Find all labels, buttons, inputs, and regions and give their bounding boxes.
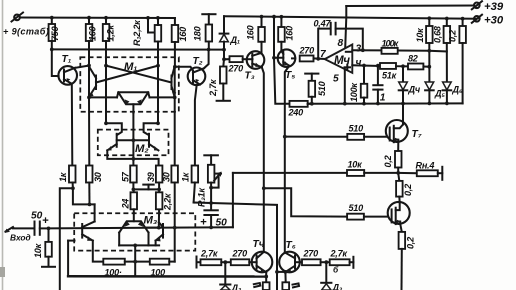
- node dot 100s centre: [133, 260, 137, 264]
- M1 cross-coupling wire X1: [106, 66, 172, 83]
- svg-text:160: 160: [246, 25, 256, 40]
- resistor 39: [156, 166, 163, 190]
- svg-text:б: б: [333, 265, 339, 275]
- resistor 270 (T5 collector to pin7): [300, 56, 325, 62]
- wire T8 gate jog from T3 emitter column: [264, 188, 347, 216]
- svg-text:Rн.4: Rн.4: [416, 161, 435, 171]
- transistor T5: [278, 49, 296, 67]
- resistor 0,2 (T8 source, bottom): [399, 224, 406, 290]
- M2 right transistor: [144, 123, 159, 150]
- svg-text:160: 160: [178, 27, 188, 42]
- IC module M3 dashed box: [74, 213, 195, 250]
- op-amp plus mark: [345, 65, 351, 70]
- transistor T1: [58, 66, 77, 85]
- wire T5 base from +30 column: [274, 17, 283, 58]
- wire 57/39 bottoms link with open terminal: [133, 185, 159, 190]
- wire M3 spare leg to output bus: [68, 241, 135, 277]
- M1 right transistor: [172, 67, 177, 97]
- wire 10k row left corner down to input row: [232, 173, 234, 227]
- trimmer R2 1k with top open terminal: [204, 155, 218, 187]
- node dot output: [396, 171, 400, 175]
- svg-text:Д₂: Д₂: [231, 283, 242, 290]
- resistor 51k: [380, 63, 396, 69]
- svg-text:1: 1: [380, 93, 386, 104]
- svg-text:270: 270: [228, 64, 244, 74]
- resistor 10k vertical: [426, 18, 433, 82]
- resistor 270 (T4 base): [231, 259, 257, 265]
- wire 51k to D4 node: [396, 65, 408, 67]
- svg-text:5: 5: [333, 74, 339, 85]
- svg-text:R₁2,2к: R₁2,2к: [132, 20, 142, 46]
- wire T7 gate row: [285, 136, 348, 138]
- svg-text:Д₆: Д₆: [452, 85, 463, 95]
- wire bias bus y=49.5: [52, 48, 224, 50]
- svg-text:100к: 100к: [382, 39, 399, 49]
- wire T2 collector up to bias bus: [204, 50, 209, 69]
- wire T2 emitter column: [195, 85, 197, 166]
- wire right emitter bus y=203: [194, 203, 277, 290]
- wire M3 base link: [147, 227, 159, 229]
- terminal +9 (circle with slash): [12, 13, 24, 22]
- wire T1 emitter column: [71, 84, 74, 166]
- resistor 510 (T8 gate): [347, 214, 388, 220]
- M3 centre pair: [119, 213, 148, 245]
- svg-text:0,47: 0,47: [314, 19, 332, 29]
- wire jog at R1 top: [148, 18, 155, 33]
- wire +30 rail: [224, 16, 477, 19]
- svg-text:30: 30: [93, 172, 103, 182]
- wire M1 right column: [174, 67, 176, 166]
- resistor 0,68 vertical: [444, 19, 451, 83]
- svg-text:М₂: М₂: [135, 143, 149, 155]
- node dot D3 top: [324, 260, 328, 264]
- svg-text:10к: 10к: [33, 243, 43, 258]
- resistor 1,2k: [103, 18, 110, 124]
- svg-text:Т₇: Т₇: [412, 129, 422, 140]
- svg-text:100к: 100к: [349, 83, 359, 102]
- resistor 10k horizontal: [347, 170, 398, 176]
- wire M1 left column: [88, 66, 90, 166]
- resistor 10k input with ground: [42, 228, 55, 266]
- svg-text:51к: 51к: [382, 71, 397, 81]
- resistor 180 with open top terminal: [202, 14, 215, 49]
- M1 emitter wires y=97.4: [89, 96, 117, 98]
- resistor 270 (T6 base): [295, 259, 330, 265]
- svg-text:10к: 10к: [348, 160, 363, 170]
- svg-text:240: 240: [288, 108, 304, 118]
- M3 right transistor: [155, 222, 163, 245]
- wire left emitter bus y=204.4: [73, 188, 95, 204]
- transistor T4: [252, 252, 273, 273]
- svg-text:50: 50: [31, 211, 43, 222]
- diode D5: [425, 82, 434, 103]
- node dots M2 collectors: [104, 121, 108, 125]
- wire +30 column to 240: [274, 58, 290, 104]
- resistor 2,7k (T6) with end terminal: [330, 257, 354, 268]
- node dot D1 anode / 270: [222, 57, 226, 61]
- resistor 2,7k (T4): [197, 259, 231, 265]
- terminal +39: [472, 1, 482, 9]
- resistor 100 (right): [150, 259, 175, 265]
- IC module M1 dashed box: [80, 57, 179, 111]
- svg-text:750: 750: [50, 26, 60, 41]
- resistor 240: [290, 101, 312, 107]
- resistor 160 (T3 collector): [258, 17, 265, 54]
- diode D2 (cut at bottom): [220, 262, 230, 290]
- svg-text:270: 270: [299, 46, 315, 56]
- op-amp minus mark: [346, 51, 351, 53]
- wire T3 emitter column: [262, 67, 264, 252]
- M1 cross-coupling wire X2: [96, 66, 158, 83]
- svg-text:2,7к: 2,7к: [330, 249, 348, 259]
- resistor 1k (T1 emitter): [69, 166, 76, 189]
- wire ground bus y=103.6: [308, 102, 463, 104]
- svg-text:+39: +39: [484, 1, 504, 13]
- R2 wiper arrow: [211, 172, 221, 188]
- resistor 2,7k vertical with open bottom terminal: [217, 59, 230, 101]
- svg-text:510: 510: [349, 203, 364, 213]
- resistor 510 (T7 gate): [347, 134, 386, 140]
- svg-text:Дч: Дч: [408, 85, 421, 95]
- svg-text:Т₅: Т₅: [285, 70, 295, 81]
- resistor 160 (b) top right of M1: [172, 18, 179, 67]
- wire 2,2k column into M3: [158, 209, 160, 227]
- svg-text:160: 160: [285, 26, 295, 41]
- op-amp Mch triangle: [325, 45, 353, 73]
- wire input row: [49, 227, 233, 228]
- node dots on +9 rail: [50, 16, 54, 20]
- svg-text:270: 270: [303, 249, 319, 259]
- wire output emitter bus bottom: [68, 275, 266, 278]
- svg-text:Вход: Вход: [10, 233, 31, 243]
- svg-text:2,7к: 2,7к: [208, 79, 218, 97]
- svg-text:Т₃: Т₃: [245, 71, 255, 82]
- resistor 30 (a): [86, 166, 93, 205]
- svg-text:Т₁: Т₁: [62, 54, 72, 65]
- wire pin3 jog to 0,68 column: [429, 50, 447, 53]
- svg-text:1к: 1к: [58, 172, 68, 182]
- resistor 100k vertical: [361, 66, 368, 104]
- svg-text:Тч: Тч: [253, 239, 265, 250]
- M2 base stubs to centre column: [117, 139, 149, 141]
- wire pin3 row: [352, 49, 429, 52]
- svg-text:+30: +30: [484, 15, 504, 27]
- resistor 100 (left): [103, 259, 150, 265]
- IC module M2 dashed box: [98, 130, 169, 156]
- svg-text:160: 160: [88, 26, 98, 41]
- svg-text:0,68: 0,68: [433, 25, 443, 43]
- diode D1: [220, 16, 229, 59]
- wire pin5 column: [344, 69, 346, 103]
- node dot R2 bottom: [209, 186, 213, 190]
- node dot pin7: [316, 57, 320, 61]
- resistor 0,2 (T7 source): [395, 142, 402, 173]
- svg-text:510: 510: [317, 81, 327, 96]
- svg-text:2,2к: 2,2к: [163, 193, 173, 211]
- svg-text:1к: 1к: [181, 172, 191, 182]
- resistor 1k (T2 emitter): [192, 166, 199, 203]
- svg-text:10к: 10к: [415, 28, 425, 43]
- capacitor 0,47: [318, 23, 363, 59]
- svg-text:Т₂: Т₂: [193, 56, 203, 67]
- MOSFET T8: [388, 202, 410, 224]
- wire feedback jog from 1k bottom: [60, 188, 73, 290]
- resistor R1 2,2k: [155, 18, 162, 123]
- wire +9 rail: [20, 17, 175, 20]
- wire M3 left collector column: [94, 204, 96, 221]
- capacitor 50 input (electrolytic): [13, 222, 49, 235]
- M3 left transistor: [82, 222, 94, 241]
- wire +39 to op-amp pin 8: [345, 6, 346, 48]
- load resistor Rn 4 with end terminal: [398, 167, 442, 180]
- node dots on bias bus: [50, 48, 54, 52]
- resistor 270 (T3 base): [224, 56, 253, 62]
- svg-text:180: 180: [193, 26, 203, 41]
- wire T1 collector to M1: [75, 66, 89, 68]
- scan edge artifact left: [2, 0, 4, 290]
- svg-text:Д₁: Д₁: [230, 35, 240, 45]
- svg-text:ч: ч: [356, 58, 362, 69]
- svg-text:Д₃: Д₃: [332, 283, 343, 290]
- diode D4: [399, 66, 408, 103]
- resistor 160 (a): [86, 18, 93, 66]
- svg-text:2,7к: 2,7к: [200, 249, 218, 259]
- resistor 100k horizontal: [382, 48, 398, 54]
- node dots on +30 rail: [260, 15, 264, 19]
- wire T6 emitter link to right bus column: [275, 270, 289, 290]
- wire pin4 row: [352, 64, 380, 67]
- svg-text:Т₆: Т₆: [286, 240, 296, 251]
- wire +39 rail: [346, 5, 474, 8]
- svg-text:57: 57: [121, 171, 131, 182]
- svg-text:+ 9(стаб): + 9(стаб): [3, 27, 49, 37]
- svg-text:0,2: 0,2: [383, 155, 393, 167]
- transistor T6 (mirrored): [279, 252, 300, 273]
- resistor 2,2k (lower): [156, 189, 163, 209]
- transistor T2: [188, 68, 206, 86]
- svg-text:0,2: 0,2: [403, 184, 413, 196]
- svg-text:39: 39: [146, 171, 156, 182]
- MOSFET T7: [386, 120, 408, 142]
- resistor 24: [131, 189, 138, 213]
- svg-text:0,2: 0,2: [406, 237, 416, 249]
- resistor 160 (T5 collector): [278, 17, 285, 52]
- resistor 30 (b): [171, 166, 178, 262]
- svg-text:+: +: [42, 215, 49, 227]
- svg-text:R₂1к: R₂1к: [197, 188, 207, 207]
- svg-text:270: 270: [232, 249, 248, 259]
- node dots ground bus: [310, 102, 314, 106]
- input terminal arrow: [5, 227, 14, 233]
- node dots inside M1: [87, 64, 91, 68]
- left end terminal of T4 row: [196, 257, 198, 268]
- emitter glyph right: [293, 283, 300, 287]
- capacitor 50 (electrolytic, R2 chain): [204, 188, 217, 228]
- svg-text:3: 3: [356, 44, 362, 55]
- resistor 57: [130, 166, 137, 190]
- wire 10k feedback row: [233, 172, 347, 174]
- diode D3: [321, 262, 331, 290]
- diode D6: [443, 82, 452, 103]
- svg-text:М₃: М₃: [144, 215, 158, 227]
- resistor 82: [408, 64, 429, 70]
- emitter glyph left: [254, 283, 260, 287]
- resistor 510 (T3 side) with open top terminal: [305, 74, 318, 104]
- svg-text:8: 8: [338, 38, 344, 49]
- M2 left transistor: [106, 123, 122, 150]
- svg-text:30: 30: [162, 172, 172, 182]
- M3 bottom wire: [119, 244, 159, 246]
- M2 emitter bottom wire: [107, 150, 158, 165]
- terminal +30: [472, 15, 482, 23]
- resistor 0,2 top right: [459, 19, 466, 104]
- wire T4 emitter to bus and cut resistor: [263, 272, 270, 290]
- wire T2 base from 160b column: [175, 67, 193, 71]
- wire T5 emitter column: [285, 66, 290, 253]
- wire M1 tail to 57 column: [132, 113, 134, 166]
- capacitor 1: [373, 66, 382, 104]
- svg-text:24: 24: [121, 199, 131, 210]
- svg-text:1,2к: 1,2к: [106, 25, 116, 42]
- wire T7 drain to bus: [402, 104, 404, 125]
- svg-text:82: 82: [408, 54, 418, 64]
- svg-text:0,2: 0,2: [448, 30, 458, 42]
- resistor 0,2 (middle): [396, 173, 403, 203]
- transistor T3: [247, 51, 265, 69]
- svg-text:510: 510: [349, 124, 364, 134]
- wire centre tap to 100 junction: [134, 245, 136, 276]
- node dot D2 top: [223, 260, 227, 264]
- resistor 750: [49, 18, 56, 50]
- wire M3 left emitter column: [93, 241, 104, 262]
- wire T1 base drop: [52, 49, 59, 76]
- M1 left transistor: [89, 67, 96, 97]
- M1 centre pair: [117, 92, 150, 113]
